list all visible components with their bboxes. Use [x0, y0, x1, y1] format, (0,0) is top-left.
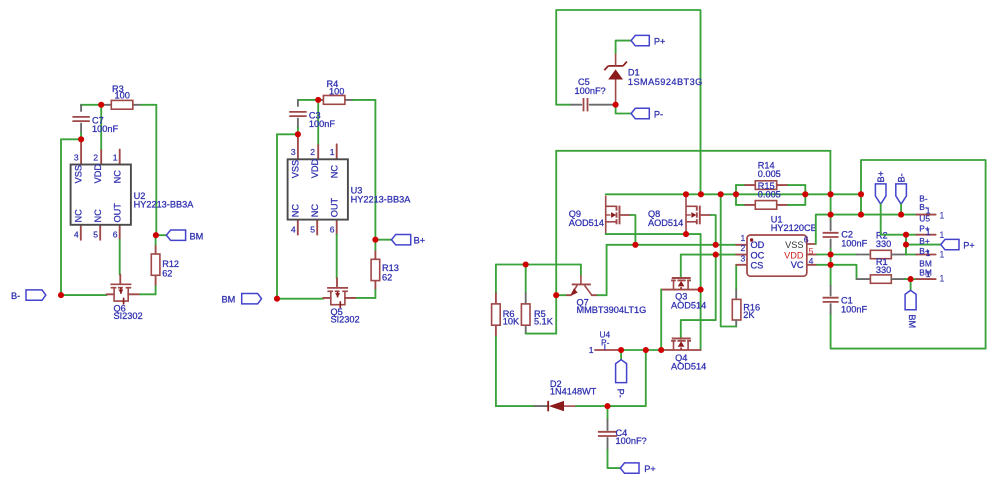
label Q9 value [569, 218, 604, 228]
label Q3 ref [675, 292, 687, 302]
wire common source link [606, 233, 701, 235]
wire Q7 base [580, 265, 582, 276]
wire R3 left lead [101, 104, 111, 106]
wire R1 to pad [905, 278, 916, 280]
label P+ right [963, 240, 975, 250]
label R2 value [876, 239, 891, 249]
resistor R15 body [755, 201, 776, 210]
wire B- flag down [900, 204, 902, 214]
svg-text:NC: NC [329, 165, 339, 179]
svg-text:100nF: 100nF [309, 119, 335, 129]
svg-text:1: 1 [939, 249, 944, 260]
svg-text:4: 4 [74, 230, 79, 240]
svg-text:100nF?: 100nF? [575, 86, 606, 96]
wire VDD line [817, 254, 857, 256]
capacitor C2 body [823, 233, 839, 237]
label C4 value [616, 436, 647, 446]
Q4 source-drain line [664, 349, 701, 351]
svg-text:HY2213-BB3A: HY2213-BB3A [134, 200, 195, 210]
wire B+ flag to pad [881, 204, 917, 235]
pin number 1 U4 [589, 345, 594, 355]
R6 bottom lead [495, 325, 497, 336]
label C5 ref [578, 77, 590, 87]
label B+ flag [414, 236, 426, 246]
resistor R13 body [371, 259, 380, 280]
junction Q7 emitter rail [553, 292, 559, 298]
wire BM node to Q5 [277, 298, 323, 300]
Q6 left lead [107, 293, 115, 295]
svg-text:5.1K: 5.1K [534, 317, 554, 327]
R15 left lead [745, 204, 755, 206]
junction OC to Q4 gate [713, 252, 719, 258]
wire top link down to bus [829, 151, 831, 195]
label R13 value [382, 272, 392, 282]
wire left rail down to B- node [60, 139, 62, 295]
wire to R15 [736, 204, 745, 206]
pin name OUT U2 [112, 203, 122, 223]
svg-text:1: 1 [926, 248, 931, 258]
pin name NC4 U3 [290, 204, 300, 218]
junction B- node [58, 292, 64, 298]
R6 top lead [495, 293, 497, 304]
label U2 ref [134, 191, 146, 201]
label R1 value [876, 265, 891, 275]
wire left rail down to BM node [276, 134, 278, 298]
wire right rail down to BM node [155, 105, 157, 235]
wire to P- flag [620, 350, 622, 360]
svg-text:1: 1 [939, 209, 944, 220]
svg-text:HY2120CB: HY2120CB [771, 223, 817, 233]
svg-text:330: 330 [876, 239, 891, 249]
diode D1 zener [604, 53, 627, 105]
C5 left lead [571, 104, 581, 106]
wire pad rail x906 [905, 235, 907, 255]
pin name NC1 U3 [329, 165, 339, 179]
wire VC to R1 [831, 265, 857, 279]
junction Q9 gate OD [632, 242, 638, 248]
svg-text:4: 4 [291, 224, 296, 234]
wire Q7 collector up to OD [598, 245, 607, 295]
wire BM node to flag [156, 234, 166, 236]
pin name VSS U3 [290, 160, 300, 178]
wire C2 top [830, 194, 832, 220]
R12 top lead [155, 245, 157, 254]
pin 5 NC stub U3 [316, 220, 318, 235]
svg-text:1N4148WT: 1N4148WT [550, 387, 597, 397]
svg-text:AOD514: AOD514 [671, 362, 706, 372]
pin name NC1 U2 [112, 170, 122, 184]
label U1 ref [771, 215, 783, 225]
resistor R16 body [732, 299, 741, 320]
svg-text:1: 1 [926, 227, 931, 237]
C1 bottom lead [830, 304, 832, 315]
wire to P+ flag right [906, 244, 941, 246]
R2 right lead [891, 254, 906, 256]
wire VSS line [816, 215, 917, 244]
R5 bottom lead [525, 325, 527, 333]
pin name NC4 U2 [73, 209, 83, 223]
junction bus right corner [858, 191, 864, 197]
label pad name BM b [919, 268, 932, 278]
pin name NC5 U3 [310, 204, 320, 218]
wire D1 to P+ flag [616, 41, 632, 53]
svg-text:P-: P- [615, 389, 625, 398]
pin 2 OC stub [736, 254, 747, 256]
Q9 gate lead [620, 214, 631, 216]
junction bus top loop [698, 191, 704, 197]
svg-text:VC: VC [791, 260, 804, 270]
label R12 value [162, 269, 172, 279]
resistor R2 body [870, 250, 891, 258]
wire C7 to VSS node [80, 133, 82, 140]
svg-text:62: 62 [382, 272, 392, 282]
wire C3 to VSS node [297, 128, 299, 135]
svg-text:VSS: VSS [73, 165, 83, 183]
R1 right lead [891, 278, 905, 280]
pin 6 VSS stub [807, 243, 816, 245]
svg-text:AOD514: AOD514 [648, 218, 683, 228]
wire VDD vertical U3 [317, 100, 319, 145]
pin number 6 U3 [330, 224, 335, 234]
wire R3 right lead [133, 104, 141, 106]
junction BM flag node [908, 276, 914, 282]
label Q5 value [331, 315, 360, 325]
label pad name B+ b [919, 246, 930, 256]
diode D2 1N4148WT [548, 401, 576, 411]
wire R13 to B+ node [374, 240, 376, 250]
wire to P- flag [616, 105, 632, 114]
svg-text:1: 1 [926, 206, 931, 216]
wire B- outer loop [831, 160, 986, 349]
junction bus R14R15 left [733, 191, 739, 197]
junction Q4/Q3 left [658, 347, 664, 353]
resistor R6 body [492, 304, 501, 325]
label C3 value [309, 119, 335, 129]
pin 3 CS stub [736, 264, 747, 266]
label C3 ref [309, 110, 321, 120]
pin name VDD U1 [784, 250, 804, 260]
Q7 emitter lead [567, 294, 571, 296]
pin number 6 U1 [804, 234, 809, 244]
label R12 ref [162, 259, 179, 269]
junction BM node cell2 [274, 296, 280, 302]
label U4 ref [600, 329, 611, 339]
label pad net B- a [919, 194, 928, 204]
svg-text:CS: CS [751, 260, 764, 270]
svg-text:SI2302: SI2302 [331, 315, 360, 325]
wire emitter to rail [556, 294, 567, 296]
wire to D2 [496, 405, 535, 407]
label R14 value [758, 169, 781, 179]
pin 1 NC stub U3 [336, 144, 338, 159]
label R3 ref [112, 84, 124, 94]
label R15 value [758, 190, 781, 200]
pin number 1 pad B+ [939, 229, 944, 240]
pin number 1 U1 [741, 233, 746, 243]
wire source rail down x700 [700, 234, 702, 350]
C5 right lead [590, 104, 613, 106]
pin 1 OD stub [736, 244, 747, 246]
flag B- input [26, 290, 46, 300]
label R4 ref [327, 79, 339, 89]
label D2 ref [550, 379, 562, 389]
wire OC to Q3 gate [680, 255, 682, 278]
label C2 ref [841, 230, 853, 240]
pin number 4 U3 [291, 224, 296, 234]
svg-text:NC: NC [310, 204, 320, 218]
wire C3 bottom lead [297, 119, 299, 128]
label D2 value [550, 387, 597, 397]
U1 pin1 mark [750, 238, 753, 241]
wire C2 to VDD [830, 249, 832, 255]
capacitor C1 body [823, 298, 839, 302]
pin 2 VDD stub U3 [317, 145, 319, 159]
label Q4 value [671, 362, 706, 372]
pad tick 1a [926, 206, 931, 216]
resistor R5 body [521, 304, 530, 325]
Q3 source-drain line [661, 289, 699, 291]
pin number 1 U2 [113, 152, 118, 162]
junction C7/VSS [78, 136, 84, 142]
svg-text:100nF: 100nF [841, 239, 867, 249]
label C1 value [841, 305, 867, 315]
junction bus R16 [718, 191, 724, 197]
label U2 value [134, 200, 195, 210]
svg-text:330: 330 [876, 265, 891, 275]
R16 top lead [735, 290, 737, 300]
flag BM vertical [905, 290, 916, 309]
pin name OUT U3 [329, 198, 339, 218]
junction B- flag [898, 212, 904, 218]
resistor R3 body [111, 100, 133, 109]
pin number 4 U1 [809, 256, 814, 266]
svg-text:1: 1 [589, 345, 594, 355]
label U3 value [351, 194, 412, 204]
pin name VSS U1 [785, 240, 803, 250]
svg-text:6: 6 [804, 234, 809, 244]
pin name VDD U2 [93, 164, 103, 184]
pin number 4 U2 [74, 230, 79, 240]
R5 top lead [525, 293, 527, 304]
svg-text:VDD: VDD [784, 250, 804, 260]
pin 6 OUT stub U2 [119, 225, 121, 240]
junction Q8 source [683, 231, 689, 237]
pin number 1 pad B- [939, 209, 944, 220]
pin 4 VC stub [807, 264, 817, 266]
wire R14 to right bracket [788, 184, 805, 186]
pin number 5 U2 [93, 230, 98, 240]
wire left rail x556 [555, 151, 557, 334]
flag BM cell1 [166, 230, 185, 240]
svg-text:NC: NC [93, 209, 103, 223]
pin number 3 U2 [74, 152, 79, 162]
label pad P+ [919, 223, 930, 233]
svg-text:100: 100 [115, 90, 130, 100]
pin name CS U1 [751, 260, 764, 270]
label C1 ref [841, 296, 853, 306]
C4 bottom lead [607, 438, 609, 450]
svg-text:1: 1 [926, 269, 931, 279]
svg-text:0.005: 0.005 [758, 190, 781, 200]
wire VDD vertical [100, 105, 102, 150]
junction P+ line [903, 242, 909, 248]
label BM vertical [907, 314, 917, 328]
wire C7-top to VDD node [81, 104, 101, 106]
R2 left lead [857, 254, 871, 256]
label Q8 ref [648, 209, 660, 219]
pin 4 NC stub U3 [297, 220, 299, 235]
label R4 value [329, 86, 344, 96]
wire OC junction down to Q4 gate [681, 255, 716, 338]
transistor Q9 symbol [606, 196, 620, 235]
transistor Q4 symbol [671, 338, 691, 351]
wire R4 left lead [318, 99, 323, 101]
R16 bottom lead [735, 320, 737, 327]
wire C5 loop to bus [556, 10, 700, 194]
C4 top lead [607, 420, 609, 431]
C2 bottom lead [830, 239, 832, 248]
pin 3 VSS stub U3 [297, 134, 299, 159]
svg-text:100nF: 100nF [841, 305, 867, 315]
wire B+ node to flag [375, 239, 391, 241]
svg-text:AOD514: AOD514 [569, 218, 604, 228]
wire R5 bottom to rail [526, 333, 557, 335]
wire R2 to pad [906, 254, 916, 256]
pin B- pad line [916, 214, 935, 216]
pad tick 1b [926, 227, 931, 237]
pin BM pad line [916, 278, 935, 280]
resistor R14 body [755, 181, 776, 190]
svg-text:OUT: OUT [112, 203, 122, 223]
pad tick 1d [926, 269, 931, 279]
label Q7 ref [577, 298, 589, 308]
wire OC line [681, 254, 736, 256]
label Q8 value [648, 218, 683, 228]
wire R5 top [525, 265, 527, 294]
label R5 value [534, 317, 554, 327]
junction P- flag [618, 347, 624, 353]
pin 4 NC stub U2 [80, 225, 82, 240]
wire R16 bottom up to bus [721, 194, 737, 326]
flag P+ bottom [620, 463, 639, 473]
pin number 2 U3 [310, 147, 315, 157]
label C7 value [92, 124, 118, 134]
wire C4 to P+ flag [608, 450, 621, 468]
junction BM node [153, 232, 159, 238]
label Q4 ref [675, 353, 687, 363]
junction bus C2 [828, 191, 834, 197]
svg-text:B-: B- [11, 291, 20, 301]
label P+ bottom [644, 464, 656, 474]
pin name VSS U2 [73, 165, 83, 183]
pin number 5 U1 [809, 246, 814, 256]
pin name NC5 U2 [93, 209, 103, 223]
label Q9 ref [569, 209, 581, 219]
junction VDD/R3 [98, 102, 104, 108]
svg-text:VDD: VDD [93, 164, 103, 184]
wire C7 bottom lead [80, 124, 82, 133]
label P- top [654, 109, 663, 119]
flag B- vertical [896, 184, 907, 204]
wire D2 to C4 node [576, 405, 608, 407]
junction B+ node [372, 237, 378, 243]
junction bus Q8 drain [683, 191, 689, 197]
label B- vertical [896, 173, 906, 182]
svg-text:NC: NC [73, 209, 83, 223]
pin number 3 U1 [741, 253, 746, 263]
wire R4 to right rail [353, 99, 376, 101]
svg-text:NC: NC [290, 204, 300, 218]
IC U2 HY2213-BB3A [71, 165, 131, 225]
wire Q6 to R12 bottom corner [140, 293, 156, 295]
junction D1/C5 [613, 102, 619, 108]
op-amp/IC U1 HY2120CB [747, 235, 807, 276]
transistor Q5 symbol [327, 288, 348, 308]
pin 5 VDD stub [807, 254, 817, 256]
label U5 ref [919, 214, 930, 224]
wire to R14 [736, 184, 745, 186]
U4 pin line [595, 349, 618, 351]
resistor R12 body [151, 254, 160, 275]
R14 right lead [777, 184, 788, 186]
label R6 value [503, 317, 520, 327]
pin 1 NC stub U2 [119, 150, 121, 165]
Q7 collector lead [592, 294, 598, 296]
label Q5 ref [331, 307, 343, 317]
svg-text:5: 5 [310, 224, 315, 234]
resistor R1 body [870, 275, 891, 283]
svg-text:BM: BM [222, 295, 236, 305]
svg-text:1: 1 [939, 272, 944, 283]
pin name VDD U3 [310, 158, 320, 178]
flag B+ vertical [875, 184, 886, 204]
wire R14/R15 left bracket [735, 185, 737, 205]
svg-text:B+: B+ [919, 236, 930, 246]
junction VSS right corner [858, 212, 864, 218]
label B- flag [11, 291, 20, 301]
pin name VC U1 [791, 260, 804, 270]
pin number 1 pad BM [939, 272, 944, 283]
wire Q5 to R13 bottom corner [357, 297, 376, 299]
svg-text:BM: BM [190, 231, 204, 241]
svg-text:B-: B- [896, 173, 906, 182]
svg-text:6: 6 [113, 230, 118, 240]
C2 top lead [830, 221, 832, 231]
label R3 value [115, 90, 130, 100]
junction VDD/C2 [828, 251, 834, 257]
label C7 ref [92, 116, 104, 126]
capacitor C4 body [598, 432, 617, 436]
label R6 ref [503, 309, 515, 319]
wire P- line [618, 349, 664, 351]
wire R6/R5 top link [496, 264, 581, 266]
junction R5 top [523, 261, 529, 267]
pad tick 1c [926, 248, 931, 258]
junction bus R14R15 right [802, 191, 808, 197]
pin number 6 U2 [113, 230, 118, 240]
wire CS to R16 [735, 265, 737, 290]
svg-text:10K: 10K [503, 317, 520, 327]
wire R12 bottom corner [155, 285, 157, 295]
label pad net BM a [919, 258, 932, 268]
transistor Q6 symbol [110, 284, 131, 304]
svg-text:100nF?: 100nF? [616, 436, 647, 446]
flag P+ right [941, 239, 959, 249]
wire VSS node to left rail [61, 138, 81, 140]
wire Q3 left down to P- line [660, 290, 662, 350]
wire R12 to BM node [155, 235, 157, 244]
svg-text:OUT: OUT [329, 198, 339, 218]
